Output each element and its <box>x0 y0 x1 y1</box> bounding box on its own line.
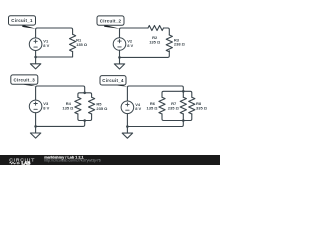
node junction C4 bottom <box>182 119 185 122</box>
svg-text:Circuit_4: Circuit_4 <box>102 78 124 83</box>
resistor R5 <box>89 97 95 114</box>
value label V4 <box>135 101 208 111</box>
svg-text:238 Ω: 238 Ω <box>174 42 186 47</box>
node junction C3 bottom <box>83 119 86 122</box>
wire R2 to corner <box>164 28 170 35</box>
wire top bracket bar C4 <box>162 91 192 97</box>
voltage source V1 <box>29 38 42 51</box>
wire top rail C2 <box>120 28 149 38</box>
voltage source V3 <box>29 100 42 113</box>
wire bracket to bottom rail C3 <box>36 121 85 127</box>
node junction C4 top <box>182 90 185 93</box>
wire top rail C3 <box>36 86 85 100</box>
svg-text:LAB: LAB <box>22 161 31 166</box>
value label V2 <box>127 35 185 48</box>
wire top rail C4 <box>127 86 183 101</box>
wire R7 top lead <box>182 91 184 97</box>
wire top rail C1 <box>36 28 73 38</box>
node junction C3 top <box>83 92 86 95</box>
svg-text:Circuit_2: Circuit_2 <box>100 18 122 23</box>
wire V4 bottom <box>126 114 128 127</box>
wire bottom rail C1 <box>36 52 73 57</box>
wire bracket to bottom rail C4 <box>127 121 183 127</box>
svg-text:Circuit_1: Circuit_1 <box>11 18 33 23</box>
voltage source V2 <box>113 38 126 51</box>
wire bottom bracket bar C3 <box>78 114 92 121</box>
svg-text:135 Ω: 135 Ω <box>149 40 161 45</box>
svg-text:335 Ω: 335 Ω <box>196 106 208 111</box>
label flag Circuit_2 <box>97 16 124 29</box>
value label V3 <box>43 101 108 111</box>
svg-text:8 V: 8 V <box>43 43 49 48</box>
wire top bracket bar C3 <box>78 93 92 97</box>
svg-text:8 V: 8 V <box>127 43 133 48</box>
svg-text:Circuit_3: Circuit_3 <box>14 77 36 82</box>
svg-text:8 V: 8 V <box>43 105 49 110</box>
voltage source V4 <box>121 101 134 114</box>
wire R3 bottom to rail <box>120 51 170 58</box>
node junction C4 ground <box>126 125 129 128</box>
svg-text:235 Ω: 235 Ω <box>96 106 108 111</box>
resistor R8 <box>189 97 195 114</box>
resistor R3 <box>166 35 172 52</box>
ground C3 <box>35 126 37 133</box>
logo zigzag <box>9 162 20 164</box>
wire V3 bottom <box>35 113 37 127</box>
resistor R6 <box>159 97 165 114</box>
node junction C3 ground <box>34 125 37 128</box>
resistor R4 <box>75 97 81 114</box>
footer bar <box>0 155 220 165</box>
svg-text:235 Ω: 235 Ω <box>168 105 180 110</box>
resistor R7 <box>180 97 186 114</box>
ground C1 <box>35 57 37 64</box>
wire V1 bottom <box>35 51 37 58</box>
ground C2 <box>119 57 121 64</box>
svg-text:135 Ω: 135 Ω <box>62 105 74 110</box>
svg-text:135 Ω: 135 Ω <box>76 42 88 47</box>
label flag Circuit_4 <box>100 76 128 87</box>
wire bottom bracket bar C4 <box>162 114 192 121</box>
wire V2 bottom <box>119 50 121 57</box>
svg-text:135 Ω: 135 Ω <box>147 105 159 110</box>
svg-text:http://circuitlab.com/c/7kd7yw: http://circuitlab.com/c/7kd7ywf3jv76 <box>44 159 101 163</box>
ground C4 <box>126 127 128 134</box>
node junction C2 <box>118 56 121 59</box>
resistor R1 <box>70 34 76 51</box>
value label V1 <box>43 38 88 49</box>
wire R7 bottom lead <box>182 114 184 121</box>
svg-text:8 V: 8 V <box>135 106 141 111</box>
label flag Circuit_1 <box>9 16 36 29</box>
node junction C1 <box>34 56 37 59</box>
label flag Circuit_3 <box>11 75 38 86</box>
resistor R2 <box>148 26 164 31</box>
